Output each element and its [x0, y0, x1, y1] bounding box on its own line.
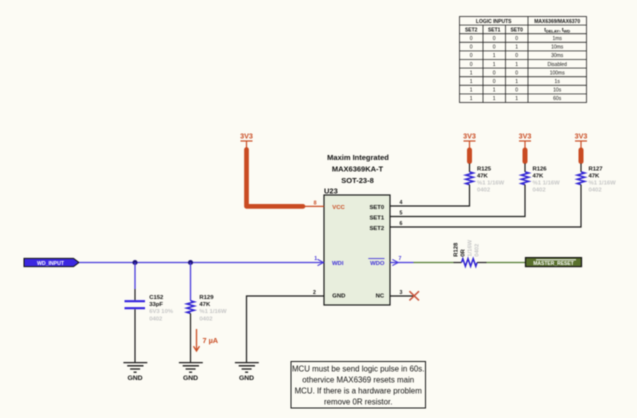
capacitor C152 [125, 301, 146, 308]
svg-text:3: 3 [400, 290, 403, 296]
svg-text:33pF: 33pF [149, 302, 163, 308]
wire R127 to pin [390, 185, 581, 227]
svg-text:0402: 0402 [149, 316, 163, 322]
svg-text:1: 1 [314, 256, 317, 262]
ground GND 1 [123, 363, 147, 373]
svg-text:1: 1 [515, 96, 518, 102]
svg-text:NC: NC [376, 294, 385, 300]
svg-text:3V3: 3V3 [575, 132, 588, 141]
wire R128 to MASTER_RESET [477, 262, 486, 264]
svg-text:0: 0 [470, 36, 473, 42]
svg-text:%1 1/16W: %1 1/16W [477, 180, 505, 186]
svg-text:LOGIC INPUTS: LOGIC INPUTS [476, 19, 512, 25]
resistor R128 [462, 259, 478, 267]
svg-text:0: 0 [515, 36, 518, 42]
wire pin2 GND to ground [247, 296, 325, 363]
svg-text:0402: 0402 [477, 187, 491, 193]
svg-text:Disabled: Disabled [547, 62, 567, 68]
svg-text:0: 0 [470, 53, 473, 59]
svg-text:0: 0 [493, 36, 496, 42]
thick VCC wire [247, 150, 304, 207]
svg-text:Maxim Integrated: Maxim Integrated [327, 153, 389, 162]
wire WD_INPUT to WDI [79, 262, 324, 264]
svg-text:R128: R128 [453, 242, 459, 257]
svg-text:100ms: 100ms [550, 70, 566, 76]
svg-text:1: 1 [493, 62, 496, 68]
power 3V3 above R127 [575, 132, 588, 149]
thick supply stub R125 [467, 150, 472, 162]
C152 value labels [149, 295, 174, 322]
wire R125 to pin [390, 185, 470, 206]
chip pin names [332, 205, 385, 300]
net label MASTER_RESET [526, 258, 582, 267]
WDO overline [368, 258, 384, 260]
ground GND 3 [235, 363, 259, 373]
IC U23 MAX6369KA-T body [324, 195, 390, 305]
wire R126 to pin [390, 185, 525, 217]
svg-text:GND: GND [127, 375, 142, 382]
svg-text:1ms: 1ms [552, 36, 562, 42]
svg-text:WDI: WDI [332, 261, 344, 267]
R128 value labels [453, 239, 480, 256]
svg-text:%1 1/16W: %1 1/16W [589, 180, 617, 186]
no-connect X on NC pin [409, 291, 419, 300]
svg-text:MAX6369KA-T: MAX6369KA-T [332, 165, 384, 174]
svg-text:C152: C152 [149, 295, 164, 301]
wire supply to R126 [524, 164, 526, 172]
R126 value labels [533, 166, 561, 193]
svg-text:2: 2 [313, 290, 316, 296]
WDI pin chevron [318, 259, 324, 265]
svg-text:othervice MAX6369 resets main: othervice MAX6369 resets main [302, 375, 414, 384]
svg-text:47K: 47K [477, 173, 489, 179]
note box [291, 362, 426, 409]
svg-text:47K: 47K [199, 302, 211, 308]
svg-text:R126: R126 [533, 166, 548, 172]
wire NC pin stub [390, 295, 414, 297]
svg-text:0: 0 [515, 88, 518, 94]
table: logic inputs truth table [460, 17, 587, 103]
thick supply stub R127 [579, 150, 584, 162]
svg-text:MCU. If there is a hardware pr: MCU. If there is a hardware problem [295, 387, 423, 396]
net label WD_INPUT [24, 258, 79, 266]
svg-text:0: 0 [470, 62, 473, 68]
svg-text:SOT-23-8: SOT-23-8 [341, 176, 374, 185]
R127 value labels [589, 166, 617, 193]
svg-text:1/16W: 1/16W [467, 239, 473, 256]
WDO pin chevron [392, 259, 398, 265]
wire supply to R127 [580, 164, 582, 172]
svg-text:0: 0 [515, 53, 518, 59]
svg-text:47K: 47K [533, 173, 545, 179]
svg-text:GND: GND [183, 375, 198, 382]
svg-text:1: 1 [470, 96, 473, 102]
wire C152 to GND [134, 309, 136, 362]
svg-text:0: 0 [493, 45, 496, 51]
svg-text:U23: U23 [324, 187, 338, 196]
svg-text:GND: GND [239, 375, 254, 382]
resistor R129 [187, 301, 195, 314]
svg-text:30ms: 30ms [551, 53, 564, 59]
svg-text:0402: 0402 [533, 187, 547, 193]
svg-text:10ms: 10ms [551, 45, 564, 51]
svg-text:SET2: SET2 [465, 27, 478, 33]
svg-text:4: 4 [400, 200, 403, 206]
svg-text:7: 7 [399, 256, 402, 262]
svg-text:SET1: SET1 [369, 216, 384, 222]
R129 value labels [199, 295, 227, 322]
svg-text:5: 5 [400, 211, 403, 217]
svg-text:%1 1/16W: %1 1/16W [533, 180, 561, 186]
svg-text:WD_INPUT: WD_INPUT [37, 261, 65, 267]
R125 value labels [477, 166, 505, 193]
chip titles [327, 153, 389, 185]
svg-text:R129: R129 [199, 295, 214, 301]
wire node2 to R129 [190, 263, 192, 301]
wire R129 to GND [190, 313, 192, 362]
svg-text:0402: 0402 [589, 187, 603, 193]
wire WDO to R128 [414, 262, 454, 264]
svg-text:1: 1 [470, 79, 473, 85]
wire VCC pin stub [303, 205, 324, 207]
svg-text:0: 0 [470, 45, 473, 51]
ground GND 2 [179, 363, 203, 373]
svg-text:GND: GND [332, 294, 345, 300]
svg-text:MASTER_RESET: MASTER_RESET [533, 261, 574, 267]
junction node 1 [132, 260, 137, 265]
svg-text:SET2: SET2 [369, 226, 384, 232]
resistor R126 [521, 172, 529, 185]
svg-text:6: 6 [400, 221, 403, 227]
resistor R127 [577, 172, 585, 185]
svg-text:remove 0R resistor.: remove 0R resistor. [324, 398, 392, 407]
svg-text:47K: 47K [589, 173, 601, 179]
svg-text:1: 1 [515, 62, 518, 68]
wire node1 to C152 [134, 263, 136, 290]
svg-text:MCU must be send logic pulse i: MCU must be send logic pulse in 60s. [292, 364, 424, 373]
resistor R125 [466, 172, 474, 185]
table data text [470, 36, 567, 102]
svg-text:%1 1/16W: %1 1/16W [199, 309, 227, 315]
svg-text:R125: R125 [477, 166, 492, 172]
junction node 2 [188, 260, 193, 265]
svg-text:SET0: SET0 [369, 205, 384, 211]
svg-text:1: 1 [493, 96, 496, 102]
svg-text:VCC: VCC [332, 205, 345, 211]
svg-text:MAX6369/MAX6370: MAX6369/MAX6370 [534, 19, 580, 25]
svg-text:0: 0 [493, 79, 496, 85]
power 3V3 above VCC [241, 141, 253, 150]
thick supply stub R126 [523, 150, 528, 162]
svg-text:SET0: SET0 [510, 27, 523, 33]
svg-text:8: 8 [314, 201, 317, 207]
svg-text:1: 1 [515, 45, 518, 51]
svg-text:0: 0 [515, 70, 518, 76]
svg-text:1: 1 [493, 53, 496, 59]
svg-text:1: 1 [470, 88, 473, 94]
svg-text:0: 0 [493, 70, 496, 76]
current arrow 7 uA [196, 329, 198, 351]
table header text [465, 19, 580, 34]
svg-text:WDO: WDO [370, 261, 385, 267]
svg-text:0402: 0402 [199, 316, 213, 322]
svg-text:0402: 0402 [474, 243, 480, 257]
svg-text:0R: 0R [460, 249, 466, 257]
svg-text:SET1: SET1 [488, 27, 501, 33]
svg-text:R127: R127 [589, 166, 604, 172]
pin numbers [313, 200, 403, 296]
svg-text:6V3 10%: 6V3 10% [149, 309, 174, 315]
svg-text:7 µA: 7 µA [203, 336, 219, 345]
svg-text:60s: 60s [553, 96, 562, 102]
svg-text:3V3: 3V3 [519, 132, 532, 141]
svg-text:1: 1 [493, 88, 496, 94]
svg-text:3V3: 3V3 [240, 132, 253, 141]
svg-text:10s: 10s [553, 88, 562, 94]
svg-text:1s: 1s [555, 79, 561, 85]
wire WDO pin stub [390, 262, 414, 264]
power 3V3 above R126 [519, 132, 532, 149]
power 3V3 above R125 [463, 132, 476, 149]
svg-text:3V3: 3V3 [463, 132, 476, 141]
svg-text:1: 1 [515, 79, 518, 85]
wire supply to R125 [469, 164, 471, 172]
svg-text:1: 1 [470, 70, 473, 76]
svg-text:tDELAY, tWD: tDELAY, tWD [544, 27, 570, 33]
